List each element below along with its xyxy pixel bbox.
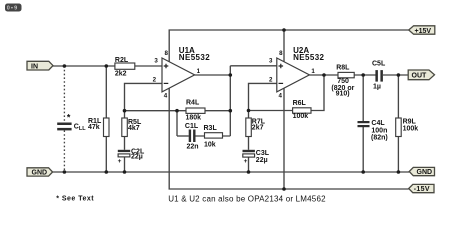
svg-text:4k7: 4k7 — [128, 125, 140, 132]
svg-text:22µ: 22µ — [256, 157, 268, 164]
svg-text:(82n): (82n) — [371, 134, 388, 141]
svg-text:U1 & U2 can also be OPA2134 or: U1 & U2 can also be OPA2134 or LM4562 — [168, 194, 326, 203]
svg-text:R8L: R8L — [336, 64, 350, 71]
svg-text:+: + — [244, 158, 248, 165]
svg-text:10k: 10k — [204, 141, 216, 148]
svg-text:100n: 100n — [371, 127, 387, 134]
svg-text:2: 2 — [269, 77, 273, 84]
svg-text:180k: 180k — [186, 115, 202, 122]
svg-text:NE5532: NE5532 — [179, 53, 210, 62]
svg-text:22µ: 22µ — [131, 153, 143, 160]
svg-text:OUT: OUT — [412, 73, 428, 80]
svg-text:910): 910) — [336, 90, 350, 97]
svg-text:47k: 47k — [88, 124, 100, 131]
svg-text:8: 8 — [279, 50, 283, 57]
svg-text:4: 4 — [279, 92, 283, 99]
svg-text:3: 3 — [154, 57, 158, 64]
svg-text:R2L: R2L — [115, 57, 129, 64]
svg-text:22n: 22n — [187, 144, 199, 151]
svg-text:C5L: C5L — [372, 61, 386, 68]
svg-text:1: 1 — [311, 68, 315, 75]
svg-text:R4L: R4L — [186, 99, 200, 106]
svg-text:NE5532: NE5532 — [293, 53, 324, 62]
svg-text:2k7: 2k7 — [252, 125, 264, 132]
svg-text:GND: GND — [32, 170, 48, 177]
svg-text:+15V: +15V — [415, 28, 432, 35]
svg-text:100k: 100k — [403, 125, 419, 132]
svg-text:1µ: 1µ — [373, 83, 381, 90]
svg-text:0•9: 0•9 — [7, 6, 19, 12]
svg-text:8: 8 — [164, 50, 168, 57]
svg-text:IN: IN — [31, 63, 38, 70]
svg-text:2: 2 — [153, 77, 157, 84]
svg-text:*: * — [67, 113, 71, 123]
svg-text:1: 1 — [197, 68, 201, 75]
svg-text:100k: 100k — [293, 113, 309, 120]
svg-text:+: + — [118, 158, 122, 165]
svg-text:4: 4 — [164, 92, 168, 99]
svg-text:R3L: R3L — [204, 125, 218, 132]
svg-text:CLL: CLL — [74, 124, 86, 133]
svg-text:GND: GND — [417, 169, 433, 176]
svg-text:R6L: R6L — [293, 100, 307, 107]
svg-text:2k2: 2k2 — [115, 71, 127, 78]
svg-text:3: 3 — [269, 57, 273, 64]
svg-text:C4L: C4L — [371, 120, 385, 127]
svg-text:C1L: C1L — [185, 123, 199, 130]
svg-text:* See Text: * See Text — [56, 195, 94, 202]
svg-text:-15V: -15V — [414, 186, 430, 193]
